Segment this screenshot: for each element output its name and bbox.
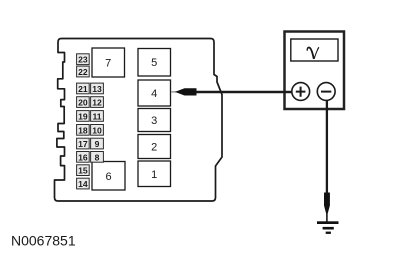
ground symbol (317, 221, 339, 234)
small pin box 15 (77, 165, 90, 176)
svg-text:8: 8 (95, 152, 100, 162)
svg-text:3: 3 (151, 115, 157, 127)
cavity box 7 (92, 48, 125, 77)
svg-text:19: 19 (78, 112, 88, 122)
svg-text:12: 12 (92, 98, 102, 108)
svg-text:11: 11 (92, 112, 101, 122)
small pin box 12 (91, 97, 104, 108)
small pin box 17 (77, 138, 90, 149)
arrowhead at pin 4 (175, 88, 197, 95)
cavity box 4 (138, 80, 171, 106)
svg-text:6: 6 (105, 171, 111, 183)
cavity box 5 (138, 49, 171, 77)
svg-text:13: 13 (92, 84, 102, 94)
svg-text:23: 23 (78, 55, 88, 65)
svg-text:7: 7 (105, 58, 111, 70)
svg-text:4: 4 (151, 88, 157, 100)
voltmeter body (285, 32, 345, 110)
cavity box 3 (138, 109, 171, 132)
small pin box 20 (77, 97, 90, 108)
svg-text:22: 22 (78, 67, 88, 77)
small pin box 21 (77, 83, 90, 94)
svg-text:5: 5 (151, 57, 157, 69)
svg-text:10: 10 (92, 125, 102, 135)
cavity box 2 (138, 135, 171, 159)
svg-text:20: 20 (78, 98, 88, 108)
small pin box 19 (77, 111, 90, 122)
small pin box 9 (91, 138, 104, 149)
arrowhead pointing to ground (324, 193, 330, 217)
svg-text:17: 17 (78, 139, 88, 149)
small pin box 22 (77, 66, 90, 77)
svg-text:14: 14 (78, 179, 88, 189)
cavity box 1 (138, 161, 171, 187)
svg-text:2: 2 (151, 142, 157, 154)
svg-text:9: 9 (95, 139, 100, 149)
minus terminal (317, 83, 335, 101)
small pin box 8 (91, 152, 104, 163)
small pin box 11 (91, 111, 104, 122)
wire: minus terminal to ground (326, 100, 328, 196)
voltmeter V label (307, 47, 320, 59)
small pin box 14 (77, 178, 90, 189)
wire: pin 4 to voltmeter plus terminal (171, 91, 177, 93)
plus terminal (292, 83, 310, 101)
svg-text:1: 1 (151, 169, 157, 181)
small pin box 18 (77, 125, 90, 136)
small pin box 16 (77, 152, 90, 163)
svg-text:16: 16 (78, 152, 88, 162)
svg-text:21: 21 (78, 84, 88, 94)
connector body outline (55, 39, 223, 202)
svg-text:18: 18 (78, 125, 88, 135)
small pin box 13 (91, 83, 104, 94)
voltmeter display window (291, 39, 338, 61)
svg-text:15: 15 (78, 166, 88, 176)
small pin box 10 (91, 125, 104, 136)
svg-text:N0067851: N0067851 (11, 233, 76, 249)
cavity box 6 (92, 162, 125, 191)
small pin box 23 (77, 54, 90, 65)
